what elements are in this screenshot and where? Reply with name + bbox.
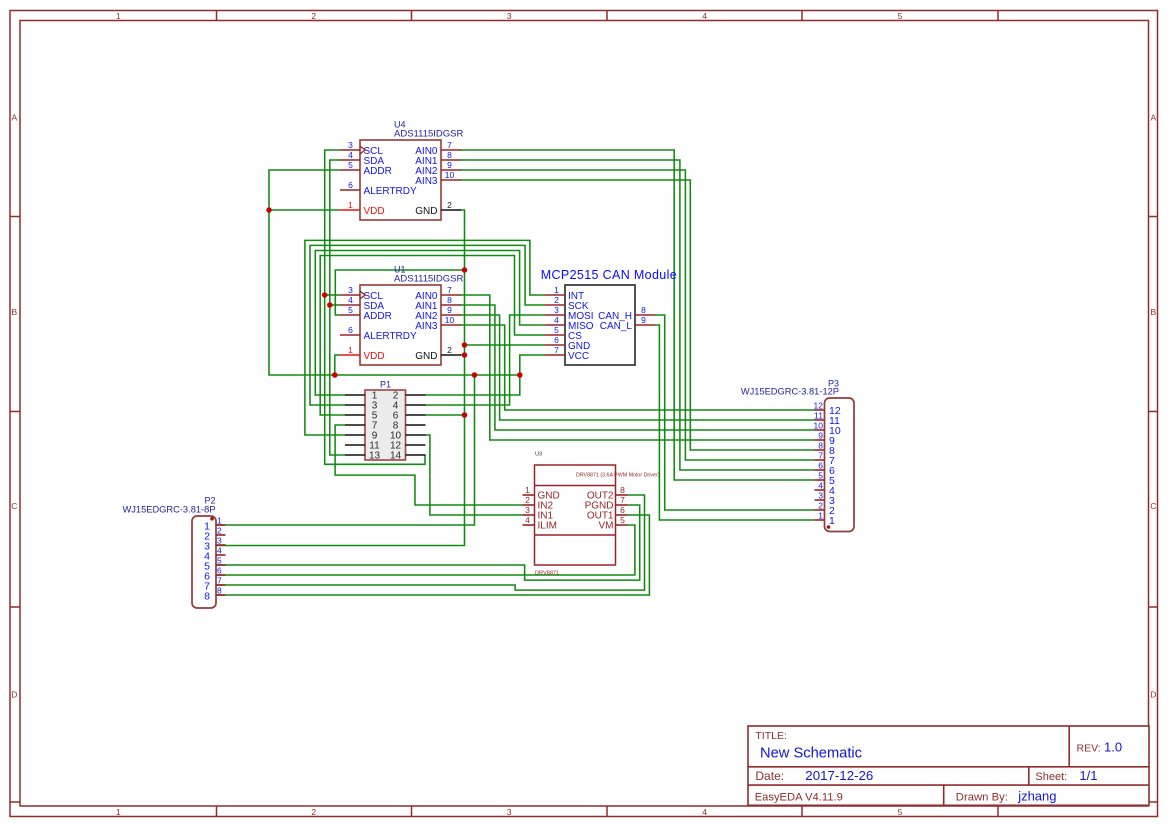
svg-text:1: 1 xyxy=(217,516,222,526)
svg-text:1: 1 xyxy=(554,285,559,295)
svg-text:C: C xyxy=(1150,501,1156,511)
svg-text:4: 4 xyxy=(348,150,353,160)
svg-text:9: 9 xyxy=(818,431,823,441)
svg-text:1: 1 xyxy=(116,807,121,817)
svg-text:WJ15EDGRC-3.81-12P: WJ15EDGRC-3.81-12P xyxy=(741,387,839,397)
svg-text:3: 3 xyxy=(507,807,512,817)
svg-text:TITLE:: TITLE: xyxy=(755,730,787,742)
svg-text:2: 2 xyxy=(311,11,316,21)
svg-text:3: 3 xyxy=(818,491,823,501)
svg-text:D: D xyxy=(1150,689,1156,699)
svg-text:6: 6 xyxy=(818,461,823,471)
svg-text:CAN_L: CAN_L xyxy=(600,321,633,332)
svg-text:VDD: VDD xyxy=(364,206,385,217)
svg-text:REV:: REV: xyxy=(1077,743,1101,755)
svg-text:2: 2 xyxy=(554,295,559,305)
svg-text:EasyEDA V4.11.9: EasyEDA V4.11.9 xyxy=(755,792,843,804)
svg-text:8: 8 xyxy=(217,586,222,596)
svg-text:14: 14 xyxy=(390,451,402,462)
svg-text:VCC: VCC xyxy=(568,351,589,362)
svg-text:6: 6 xyxy=(554,335,559,345)
svg-text:VDD: VDD xyxy=(364,351,385,362)
svg-text:7: 7 xyxy=(447,285,452,295)
svg-text:8: 8 xyxy=(620,485,625,495)
svg-text:9: 9 xyxy=(447,305,452,315)
svg-text:5: 5 xyxy=(217,556,222,566)
svg-text:8: 8 xyxy=(204,591,210,603)
svg-text:MCP2515 CAN Module: MCP2515 CAN Module xyxy=(541,268,677,282)
svg-text:A: A xyxy=(11,112,17,122)
svg-text:C: C xyxy=(11,501,17,511)
svg-text:3: 3 xyxy=(507,11,512,21)
svg-text:4: 4 xyxy=(702,807,707,817)
svg-text:DRV8871 (3.6A PWM Motor Driver: DRV8871 (3.6A PWM Motor Driver) xyxy=(576,472,660,478)
svg-text:AIN3: AIN3 xyxy=(415,176,438,187)
svg-text:VM: VM xyxy=(599,521,614,532)
svg-text:ADDR: ADDR xyxy=(364,166,392,177)
svg-text:1: 1 xyxy=(525,485,530,495)
svg-text:11: 11 xyxy=(814,411,823,421)
svg-text:2017-12-26: 2017-12-26 xyxy=(805,768,873,783)
svg-text:ADS1115IDGSR: ADS1115IDGSR xyxy=(394,274,463,285)
svg-text:8: 8 xyxy=(447,150,452,160)
svg-text:B: B xyxy=(11,307,17,317)
svg-text:8: 8 xyxy=(447,295,452,305)
svg-text:jzhang: jzhang xyxy=(1017,789,1056,804)
svg-text:B: B xyxy=(1150,307,1156,317)
svg-text:3: 3 xyxy=(348,140,353,150)
svg-text:1: 1 xyxy=(829,515,835,527)
svg-text:10: 10 xyxy=(445,170,455,180)
svg-text:Sheet:: Sheet: xyxy=(1035,771,1067,783)
svg-text:ILIM: ILIM xyxy=(538,521,557,532)
svg-text:WJ15EDGRC-3.81-8P: WJ15EDGRC-3.81-8P xyxy=(123,505,216,515)
svg-text:Drawn By:: Drawn By: xyxy=(956,792,1008,804)
svg-text:4: 4 xyxy=(702,11,707,21)
svg-text:10: 10 xyxy=(445,315,455,325)
svg-text:4: 4 xyxy=(554,315,559,325)
svg-text:7: 7 xyxy=(447,140,452,150)
svg-text:2: 2 xyxy=(525,495,530,505)
svg-text:D: D xyxy=(11,689,17,699)
svg-text:GND: GND xyxy=(415,206,437,217)
svg-text:5: 5 xyxy=(620,515,625,525)
svg-text:New Schematic: New Schematic xyxy=(760,746,862,762)
svg-text:1: 1 xyxy=(348,345,353,355)
svg-text:2: 2 xyxy=(311,807,316,817)
svg-text:ADS1115IDGSR: ADS1115IDGSR xyxy=(394,129,463,140)
svg-text:1/1: 1/1 xyxy=(1079,768,1097,783)
svg-text:3: 3 xyxy=(525,505,530,515)
svg-text:2: 2 xyxy=(217,526,222,536)
svg-text:4: 4 xyxy=(525,515,530,525)
svg-text:1: 1 xyxy=(348,200,353,210)
svg-text:4: 4 xyxy=(818,481,823,491)
svg-text:5: 5 xyxy=(898,11,903,21)
svg-text:2: 2 xyxy=(447,200,452,210)
svg-text:ADDR: ADDR xyxy=(364,311,392,322)
svg-text:7: 7 xyxy=(620,495,625,505)
svg-text:1: 1 xyxy=(818,511,823,521)
svg-text:6: 6 xyxy=(620,505,625,515)
svg-text:DRV8871: DRV8871 xyxy=(535,570,559,576)
svg-text:1.0: 1.0 xyxy=(1104,740,1122,755)
svg-text:P1: P1 xyxy=(380,380,391,390)
svg-text:2: 2 xyxy=(447,345,452,355)
svg-text:2: 2 xyxy=(818,501,823,511)
svg-text:9: 9 xyxy=(447,160,452,170)
svg-text:6: 6 xyxy=(348,180,353,190)
svg-text:4: 4 xyxy=(217,546,222,556)
svg-text:AIN3: AIN3 xyxy=(415,321,438,332)
svg-text:4: 4 xyxy=(348,295,353,305)
svg-text:3: 3 xyxy=(217,536,222,546)
svg-text:5: 5 xyxy=(348,160,353,170)
svg-text:6: 6 xyxy=(217,566,222,576)
svg-text:9: 9 xyxy=(641,315,646,325)
svg-text:7: 7 xyxy=(217,576,222,586)
svg-text:7: 7 xyxy=(818,451,823,461)
svg-text:ALERTRDY: ALERTRDY xyxy=(364,186,417,197)
svg-text:12: 12 xyxy=(814,401,824,411)
svg-text:8: 8 xyxy=(818,441,823,451)
svg-text:5: 5 xyxy=(554,325,559,335)
svg-text:5: 5 xyxy=(818,471,823,481)
svg-text:6: 6 xyxy=(348,325,353,335)
svg-text:13: 13 xyxy=(369,451,381,462)
svg-text:U3: U3 xyxy=(535,452,542,458)
svg-text:1: 1 xyxy=(116,11,121,21)
svg-text:7: 7 xyxy=(554,345,559,355)
svg-text:Date:: Date: xyxy=(755,769,784,783)
svg-text:A: A xyxy=(1150,112,1156,122)
svg-text:3: 3 xyxy=(554,305,559,315)
svg-text:5: 5 xyxy=(898,807,903,817)
svg-text:8: 8 xyxy=(641,305,646,315)
svg-text:ALERTRDY: ALERTRDY xyxy=(364,331,417,342)
svg-text:GND: GND xyxy=(415,351,437,362)
svg-text:3: 3 xyxy=(348,285,353,295)
svg-text:5: 5 xyxy=(348,305,353,315)
svg-text:10: 10 xyxy=(814,421,824,431)
